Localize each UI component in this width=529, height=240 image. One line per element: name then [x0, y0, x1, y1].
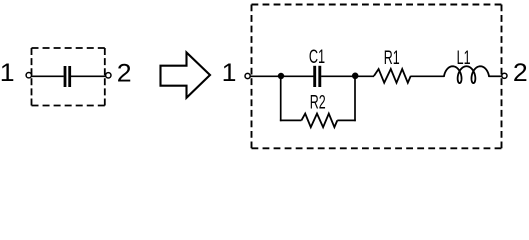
svg-text:C1: C1	[309, 45, 325, 68]
svg-text:1: 1	[0, 58, 15, 87]
svg-text:L1: L1	[457, 47, 471, 68]
svg-text:R1: R1	[384, 48, 400, 69]
svg-text:2: 2	[513, 58, 528, 87]
svg-text:2: 2	[117, 58, 132, 87]
svg-text:R2: R2	[310, 92, 326, 113]
svg-text:1: 1	[222, 58, 237, 87]
